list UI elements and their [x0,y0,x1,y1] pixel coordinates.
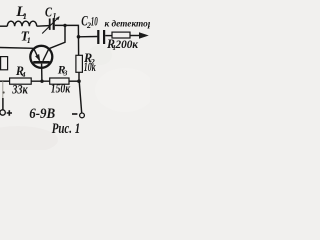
resistor R1 box [112,32,130,38]
capacitor C1 (variable) left plate [49,19,51,30]
C1 variable arrow [42,17,59,34]
wire: base lead down to rail [41,64,43,82]
node: rail right junction dot [77,79,81,83]
wire: rail R4 to R3 [31,80,50,82]
node: junction dot at collector tap [63,24,66,27]
wire: left battery lead (faded) [2,81,4,100]
wire: collector drop from top rail [49,25,65,48]
resistor box at left edge (cut off) [1,57,8,70]
svg-text:1: 1 [53,12,57,21]
svg-text:1: 1 [27,36,31,45]
arrow to detector [139,32,149,38]
svg-text:33к: 33к [11,82,28,96]
capacitor C2 left plate [97,30,99,44]
wire: rail R3 to right junction [69,80,79,82]
svg-text:Рис. 1: Рис. 1 [52,121,80,137]
terminal: minus (open circle) [80,113,85,118]
svg-text:150к: 150к [51,82,71,96]
wire: stub down to battery minus terminal [79,81,82,113]
svg-text:4: 4 [21,70,26,79]
wire: C2 to R1 [105,35,112,37]
capacitor C1 right plate [53,19,55,30]
svg-text:200к: 200к [115,39,140,51]
resistor R4 box [10,78,32,84]
plus sign [7,110,12,115]
svg-text:6-9В: 6-9В [29,106,55,122]
svg-text:10к: 10к [84,60,96,74]
wire: right vertical from corner down [77,25,79,55]
transistor emitter diagonal with arrow [34,48,40,60]
node: base junction dot [40,80,43,83]
node: junction dot to C2 branch [77,35,81,39]
wire: emitter line from left edge [0,47,34,50]
svg-text:3: 3 [63,68,68,77]
transistor T1 circle [30,46,52,68]
resistor R3 box [50,78,69,84]
wire: R1 to arrow [130,35,140,37]
paper background [0,0,150,150]
resistor R2 box (vertical) [76,55,83,72]
minus dash [72,113,77,115]
wire: R2 bottom to rail [78,72,80,81]
transistor base bar [33,61,50,64]
wire: L1 to C1 [37,25,50,28]
svg-text:1: 1 [23,11,27,21]
wire: branch to C2 [79,36,98,38]
terminal: plus (open circle, cut at edge) [0,110,5,115]
capacitor C2 right plate [103,30,105,44]
inductor L1 [7,21,36,26]
svg-text:к детектору: к детектору [105,18,151,29]
transistor collector diagonal [43,49,49,61]
wire: top-left lead into L1 [0,25,7,27]
wire: C1 to corner, top rail [55,24,78,26]
svg-text:10: 10 [91,14,98,28]
wire: bottom rail left segment [0,80,10,82]
